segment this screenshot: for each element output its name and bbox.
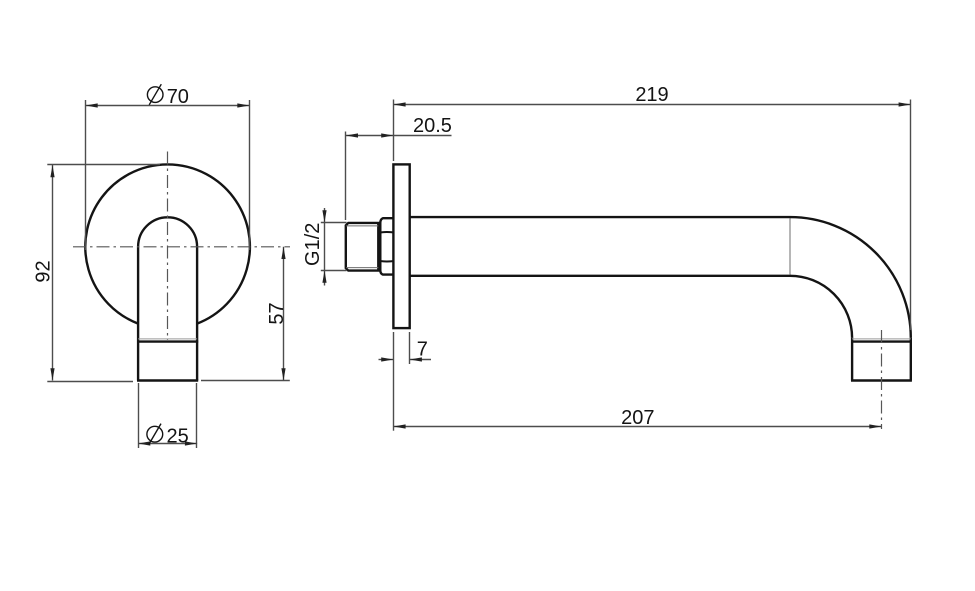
dim G1/2 line <box>324 208 326 286</box>
arrow 57 bottom <box>281 368 285 380</box>
label Ø25 <box>147 424 163 445</box>
dim G1/2 extension bottom <box>321 270 347 272</box>
dim 7 line left segment <box>379 359 394 361</box>
dim 20.5 line <box>346 135 452 137</box>
arrow 92 top <box>50 165 54 177</box>
arrow 20.5 left <box>346 133 358 137</box>
arrow 7 right (outside, pointing left) <box>410 357 422 361</box>
dim G1/2 extension top <box>321 222 347 224</box>
aerator seam thin line <box>138 338 197 340</box>
dim Ø25 line <box>138 443 197 445</box>
svg-text:25: 25 <box>167 425 189 447</box>
hex nut silhouette <box>380 218 393 274</box>
dim 219 line <box>393 104 910 106</box>
svg-text:207: 207 <box>621 407 654 429</box>
outlet centerline <box>881 330 883 429</box>
hex facet line top <box>380 231 393 233</box>
centerline horizontal (left view) <box>73 246 290 248</box>
arrow 7 left (outside, pointing right) <box>381 357 393 361</box>
dim 219 extension left <box>393 100 395 162</box>
dim 57 extension line bottom <box>201 380 290 382</box>
tube bottom edge <box>137 379 198 381</box>
outlet aerator seam thin <box>852 338 911 340</box>
arrow 207 right <box>869 424 881 428</box>
centerline vertical (left view) <box>167 152 169 341</box>
outlet right edge <box>910 338 912 381</box>
svg-text:219: 219 <box>635 84 668 106</box>
dim 20.5 extension left <box>345 132 347 221</box>
dim Ø25 extension lines <box>138 383 140 448</box>
thread root line bottom <box>346 267 378 269</box>
svg-text:G1/2: G1/2 <box>302 223 324 266</box>
outlet bottom edge <box>851 379 912 381</box>
arrow Ø70 left <box>86 103 98 107</box>
arrow Ø70 right <box>237 103 249 107</box>
arrow Ø25 right <box>185 441 197 445</box>
dim Ø70 extension lines <box>85 100 87 250</box>
arrow 57 top <box>281 247 285 259</box>
dim 7 line right segment <box>410 359 431 361</box>
arrow G1/2 top (outside, pointing down) <box>322 210 326 222</box>
wire: tube right side <box>196 247 198 381</box>
dim 207 line <box>393 426 881 428</box>
aerator seam bold line <box>137 340 198 342</box>
spout tube top edge <box>410 216 790 218</box>
outlet left edge <box>851 338 853 381</box>
label Ø70 <box>147 84 163 105</box>
arrow 20.5 right <box>381 133 393 137</box>
dim 57 line <box>283 247 285 381</box>
bend inner arc <box>790 276 852 338</box>
bend outer arc <box>790 217 911 338</box>
dim 92 extension lines <box>47 164 160 166</box>
dim Ø70 line <box>86 105 250 107</box>
arrow 219 left <box>393 102 405 106</box>
svg-text:92: 92 <box>32 260 54 282</box>
wire: tube left side <box>137 247 139 381</box>
dim 7 extension right <box>409 332 411 364</box>
arrow G1/2 bottom (outside, pointing up) <box>322 271 326 283</box>
arrow Ø25 left <box>138 441 150 445</box>
outlet aerator seam bold <box>851 340 912 342</box>
dim 92 line <box>52 165 54 381</box>
wall plate (escutcheon side view) <box>393 164 409 328</box>
flange circle (wall escutcheon, front view; arc hidden behind tube) <box>85 164 250 323</box>
spout tube front view (half-round top + straight sides) <box>138 217 197 246</box>
svg-text:20.5: 20.5 <box>413 115 452 137</box>
svg-text:7: 7 <box>417 339 428 361</box>
bend tangent thin line <box>789 218 791 275</box>
dim 219 extension right <box>910 100 912 331</box>
svg-text:70: 70 <box>167 86 189 108</box>
arrow 207 left <box>393 424 405 428</box>
thread root line top <box>346 225 378 227</box>
hex facet line bottom <box>380 260 393 262</box>
svg-text:57: 57 <box>266 302 288 324</box>
threaded nipple body <box>346 223 379 271</box>
arrow 219 right <box>899 102 911 106</box>
arrow 92 bottom <box>50 368 54 380</box>
spout tube bottom edge <box>410 275 790 277</box>
dim 207 extension left (shared with 7) <box>393 332 395 431</box>
